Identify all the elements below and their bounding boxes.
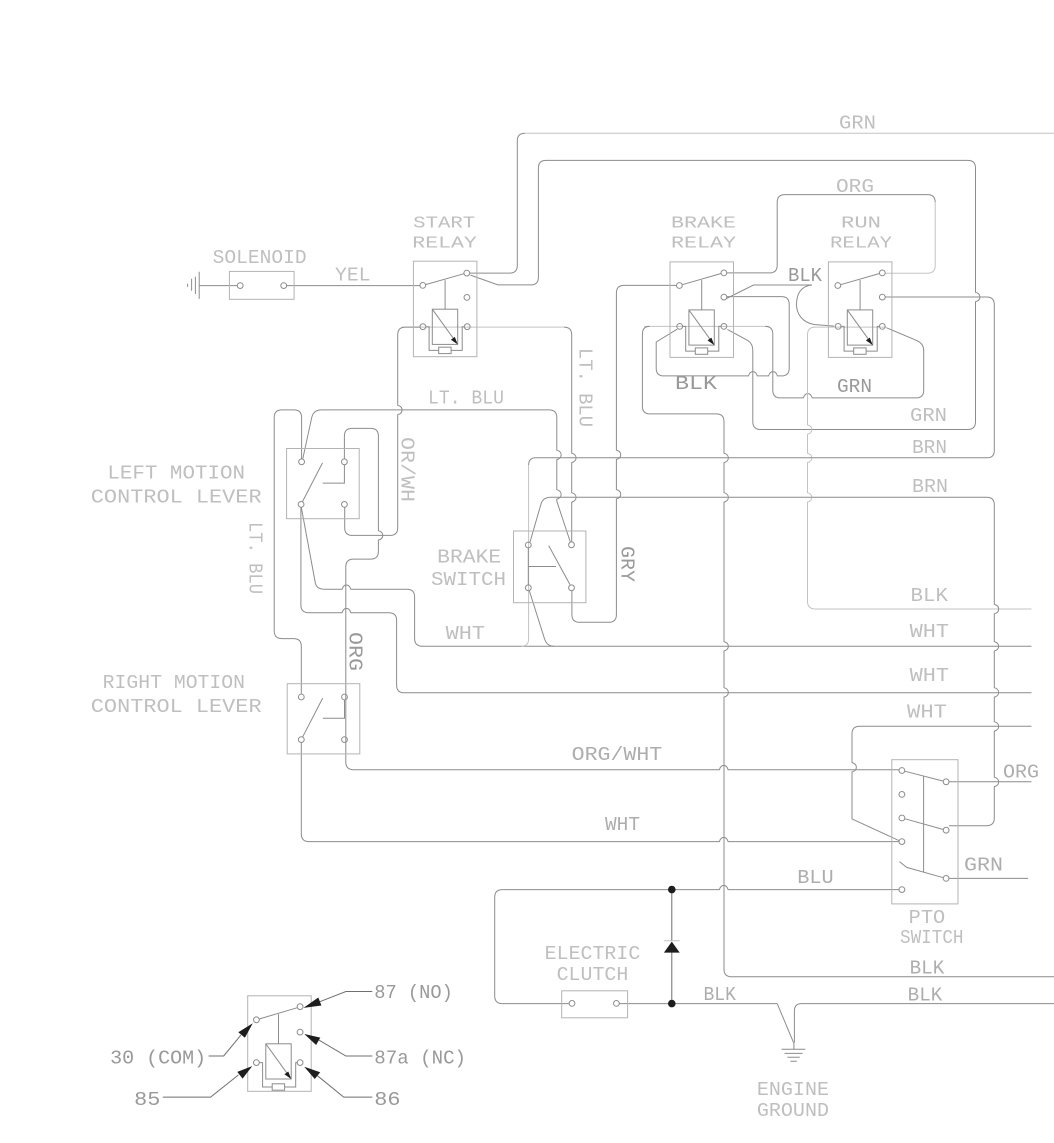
svg-text:WHT: WHT [907,702,947,724]
svg-text:RUN: RUN [841,215,881,234]
svg-text:ORG: ORG [344,632,366,671]
svg-text:RELAY: RELAY [830,235,892,254]
svg-text:ORG/WHT: ORG/WHT [572,744,663,766]
svg-text:BLK: BLK [911,585,949,607]
svg-text:BRAKE: BRAKE [437,547,501,569]
legend leader 87 (NO) [320,992,373,1002]
svg-text:BLK: BLK [788,265,823,287]
wire: start relay coil row (light) [402,326,564,328]
svg-text:SOLENOID: SOLENOID [213,247,307,269]
wire: brake relay coil row (light) [644,325,769,327]
right motion control lever switch [287,684,360,754]
wire: brake relay 87a loop down to brake relay 85 [656,297,789,376]
wire BRN: run relay 87a down, BRN1 bus, light leg through brake switch to WHT1 [529,297,995,465]
wire GRN: top horizontal bus to right edge (light) [525,132,1054,134]
svg-text:LEFT MOTION: LEFT MOTION [107,463,245,485]
svg-text:85: 85 [134,1089,160,1111]
wire WHT: left lever lower-left pin diagonal to WHT1 bus [301,507,1031,646]
svg-text:86: 86 [374,1089,400,1111]
svg-text:BRN: BRN [912,476,948,498]
svg-text:GRN: GRN [964,855,1003,877]
diode D1 (clutch flyback) [664,942,680,953]
relay BRAKE (U2) [670,262,734,358]
wire BLK: BLK2 bus east of ground tap to right edge [794,1004,1054,1043]
svg-text:LT. BLU: LT. BLU [574,348,596,427]
svg-text:BRAKE: BRAKE [671,215,736,234]
wire BLK: engine ground tap diagonal [777,1004,793,1043]
svg-text:BLK: BLK [908,985,943,1007]
wire GRN: start87 diag, y160 bus, right leg down, GRN2 bus, to brake relay 86 [471,160,980,429]
solenoid [229,271,294,299]
svg-text:RELAY: RELAY [671,235,736,254]
legend relay (pin identification) [248,996,312,1092]
svg-text:RELAY: RELAY [412,235,477,254]
svg-text:START: START [413,215,475,234]
wire ORG: brake relay 87 to run relay 87 via top ORG bus [727,195,935,273]
svg-text:WHT: WHT [910,621,950,643]
svg-text:GRN: GRN [837,376,872,398]
svg-text:RIGHT MOTION: RIGHT MOTION [103,672,245,694]
wire WHT: left lever lower-left pin straight leg to WHT2 bus [301,507,1032,692]
wire GRN: brake relay 86 row to run relay 86 [765,326,924,398]
wire OR/WH: start relay 85 down to left lever lower-right pin [345,327,421,535]
legend leader 30 (COM) [209,1035,241,1056]
wire: run relay coil row (light) [814,326,886,328]
svg-text:ORG: ORG [1003,762,1039,784]
svg-text:WHT: WHT [605,814,640,836]
svg-text:GROUND: GROUND [757,1100,829,1122]
legend leader 85 [163,1075,239,1097]
svg-text:SWITCH: SWITCH [431,569,506,591]
wire BLK: brake relay 87a to run relay 85 (hook) [727,285,835,326]
wire ORG: left lever upper-right pin loop down to PTO switch pin 1 (ORG/WHT bus) [344,428,899,769]
junction dot on BLU bus [668,886,676,894]
wire BLK: brake relay 85 row west leg down to engine ground BLK1 bus [642,326,1054,976]
wire BLU: clutch loop west leg and BLU bus to PTO pin L5 [495,885,899,1003]
left motion control lever switch [287,449,360,519]
svg-text:BLU: BLU [797,867,833,889]
svg-text:CONTROL LEVER: CONTROL LEVER [91,487,262,509]
svg-text:LT. BLU: LT. BLU [244,522,266,594]
svg-text:BLK: BLK [704,984,737,1006]
wire GRY: brake relay 30 to brake switch lower-right pin [572,285,677,622]
legend leader 87a (NC) [319,1040,372,1056]
svg-text:BLK: BLK [675,373,718,395]
wire GRN: start relay 87 up to top GRN bus (dark leg) [470,133,525,273]
svg-text:WHT: WHT [910,665,950,687]
wire GRN: PTO pin R3 east [949,877,1028,879]
svg-text:BRN: BRN [912,437,947,459]
wire WHT: brake switch lower-left pin diagonal to WHT1 bus [529,591,554,647]
PTO switch [892,760,958,904]
svg-text:BLK: BLK [910,958,945,980]
junction dot on BLK2 bus [668,1000,676,1008]
svg-text:87a (NC): 87a (NC) [374,1048,466,1070]
solenoid ground symbol [188,272,200,299]
wire LT. BLU: left lever upper-left pin west leg down to right lever upper-left pin [274,410,301,694]
wire ORG: PTO pin R1 east to right area [949,781,1032,783]
relay RUN (U3) [828,262,892,358]
svg-text:YEL: YEL [335,265,371,287]
wire YEL: engine ground to solenoid [199,285,237,287]
svg-text:GRN: GRN [910,405,947,427]
wire WHT: right lever lower-left pin down along WHT bus to PTO pin L4 [301,743,899,842]
svg-text:30 (COM): 30 (COM) [110,1048,206,1070]
svg-text:LT. BLU: LT. BLU [428,388,504,410]
svg-text:ENGINE: ENGINE [757,1079,829,1101]
svg-text:ORG: ORG [836,176,874,198]
wire YEL: solenoid to start relay pin 30 [287,285,421,287]
wire BRN: brake switch upper-left pin, BRN2 bus, long right leg to PTO pin R2 [530,497,999,825]
svg-text:WHT: WHT [446,623,486,645]
brake switch [514,531,586,603]
svg-text:PTO: PTO [909,907,946,929]
svg-text:GRN: GRN [839,113,876,135]
svg-text:SWITCH: SWITCH [900,927,964,949]
svg-text:OR/WH: OR/WH [396,437,418,502]
wire BLK: run relay 85 row down to BLK bus (light) [808,327,1032,609]
svg-text:CONTROL LEVER: CONTROL LEVER [91,696,262,718]
relay START (U1) [413,261,477,357]
legend leader 86 [317,1076,372,1097]
svg-text:87 (NO): 87 (NO) [374,982,453,1004]
wire LT. BLU: left lever upper-left pin east leg to brake switch upper-right pin [303,410,570,542]
electric clutch [562,991,628,1018]
svg-text:CLUTCH: CLUTCH [557,964,629,986]
wire WHT3 bus: to PTO pin L4 via west leg [852,726,1032,840]
engine ground symbol [782,1043,806,1062]
wire LT. BLU: start relay 86 down to brake switch upper-right pin [564,327,576,542]
svg-text:GRY: GRY [616,546,638,583]
wire: diode vertical from BLU junction to BLK junction [671,893,673,1000]
wire BLK: clutch to engine ground tap (BLK2 bus west) [619,1003,777,1005]
svg-text:ELECTRIC: ELECTRIC [545,943,641,965]
